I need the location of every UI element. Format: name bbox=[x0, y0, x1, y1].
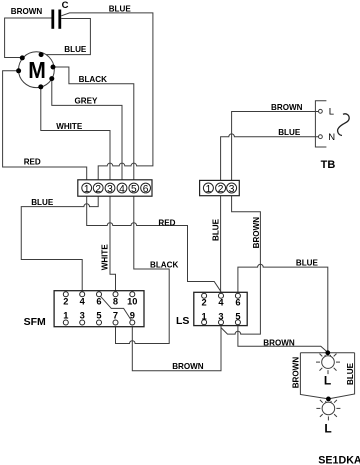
svg-text:3: 3 bbox=[218, 312, 223, 322]
wire blue (capacitor to terminal 2, long right loop) bbox=[61, 13, 153, 183]
wire red (terminal 1 to LS pin 4) bbox=[87, 193, 221, 292]
wire brown (SFM pin 9 to LS pin 3) bbox=[132, 325, 221, 371]
svg-text:BROWN: BROWN bbox=[172, 362, 204, 371]
lamp L2 rays bbox=[316, 400, 340, 421]
LS pin numbers top row bbox=[202, 298, 241, 308]
wire white (motor bottom to terminal 3) bbox=[41, 88, 110, 184]
svg-text:6: 6 bbox=[235, 298, 240, 308]
svg-text:BLUE: BLUE bbox=[212, 218, 221, 241]
motor terminal dot (upper-left, brown) bbox=[20, 55, 25, 60]
wire brown (terminal block 2 pin 3 up to TB L) bbox=[232, 112, 319, 184]
svg-text:4: 4 bbox=[119, 184, 125, 195]
svg-text:1: 1 bbox=[84, 184, 90, 195]
motor terminal dot (top, blue) bbox=[39, 52, 44, 57]
TB flex cable squiggle bbox=[338, 114, 350, 136]
svg-text:N: N bbox=[328, 132, 335, 143]
svg-text:BROWN: BROWN bbox=[11, 7, 43, 16]
lamp L2 collar bbox=[326, 401, 332, 403]
lamp L2 bulb circle bbox=[322, 402, 335, 415]
wire red (motor left to terminal 1) bbox=[3, 71, 87, 183]
svg-text:6: 6 bbox=[96, 296, 101, 306]
SFM switch linkage bbox=[100, 296, 131, 320]
TB terminal L circle bbox=[319, 109, 323, 113]
svg-text:TB: TB bbox=[321, 159, 336, 171]
svg-text:2: 2 bbox=[202, 298, 207, 308]
wire brown (LS pin 3 to terminal block 2 pin 3, up to TB) bbox=[221, 193, 260, 334]
wire white (terminal 3 to SFM pin 8) bbox=[110, 193, 116, 292]
LS pin numbers bottom row bbox=[202, 312, 241, 322]
svg-text:RED: RED bbox=[158, 218, 175, 227]
motor M1 circle bbox=[19, 52, 55, 88]
svg-text:BROWN: BROWN bbox=[263, 339, 295, 348]
motor terminal dot (right, black) bbox=[51, 65, 56, 70]
svg-text:BLUE: BLUE bbox=[278, 128, 301, 137]
svg-text:4: 4 bbox=[80, 296, 86, 306]
terminal strip TS2 circled numbers 1-3 bbox=[203, 183, 236, 193]
svg-text:RED: RED bbox=[24, 158, 41, 167]
svg-text:7: 7 bbox=[113, 311, 118, 321]
wire black (terminal 5 to SFM pin 7) bbox=[116, 193, 170, 344]
LS top pins bbox=[202, 293, 241, 298]
svg-text:BLUE: BLUE bbox=[346, 362, 355, 385]
lamp L2 connection dot bbox=[326, 397, 331, 402]
svg-text:1: 1 bbox=[63, 311, 68, 321]
svg-text:3: 3 bbox=[80, 311, 85, 321]
svg-text:2: 2 bbox=[218, 184, 224, 195]
svg-text:1: 1 bbox=[202, 312, 207, 322]
svg-text:10: 10 bbox=[127, 296, 137, 306]
motor terminal dot (left, red) bbox=[16, 68, 21, 73]
lamp L1 connection dot bbox=[325, 350, 330, 355]
wire brown (LS pin 5 to lamp 1) bbox=[238, 325, 328, 353]
svg-text:SE1DKA: SE1DKA bbox=[318, 455, 360, 465]
svg-text:L: L bbox=[329, 107, 334, 118]
SFM pin numbers top row bbox=[63, 296, 137, 306]
lamp L1 rays bbox=[316, 354, 340, 375]
svg-text:5: 5 bbox=[96, 311, 101, 321]
svg-text:L: L bbox=[324, 421, 331, 435]
TB terminal N circle bbox=[319, 135, 323, 139]
svg-text:5: 5 bbox=[131, 184, 137, 195]
svg-text:BROWN: BROWN bbox=[271, 103, 303, 112]
svg-text:BROWN: BROWN bbox=[291, 357, 300, 389]
svg-text:BLUE: BLUE bbox=[109, 5, 132, 14]
svg-text:2: 2 bbox=[63, 296, 68, 306]
wire blue (terminal 2 to SFM pin 4) bbox=[21, 193, 98, 292]
LS block box bbox=[194, 292, 247, 325]
svg-text:BLUE: BLUE bbox=[64, 45, 87, 54]
svg-text:BLACK: BLACK bbox=[79, 75, 107, 84]
svg-text:WHITE: WHITE bbox=[101, 244, 110, 271]
svg-text:SFM: SFM bbox=[24, 316, 46, 328]
terminal strip TS1 box bbox=[78, 180, 152, 196]
svg-text:8: 8 bbox=[113, 296, 118, 306]
SFM bottom pins bbox=[63, 320, 135, 325]
lamp L1 bulb circle bbox=[322, 356, 335, 369]
svg-text:5: 5 bbox=[235, 312, 240, 322]
wire black (motor right to terminal 5) bbox=[54, 67, 134, 183]
svg-text:BLUE: BLUE bbox=[31, 198, 54, 207]
terminal strip TS2 box bbox=[200, 180, 240, 195]
wire grey (motor lower-right to terminal 4) bbox=[52, 80, 122, 183]
LS bottom pins bbox=[202, 320, 241, 325]
SFM top pins bbox=[63, 292, 135, 297]
lamp fixture outline bbox=[300, 353, 354, 399]
motor terminal dot (lower-right, grey) bbox=[49, 76, 54, 81]
svg-text:LS: LS bbox=[176, 315, 189, 327]
SFM pin numbers bottom row bbox=[63, 311, 135, 321]
wire blue (LS pin 6 to lamp 1) bbox=[238, 264, 328, 351]
lamp L1 collar bbox=[325, 355, 331, 357]
svg-text:BLACK: BLACK bbox=[150, 260, 178, 269]
svg-text:L: L bbox=[324, 374, 331, 388]
svg-text:3: 3 bbox=[229, 184, 235, 195]
terminal strip TS1 circled numbers 1-6 bbox=[82, 183, 151, 193]
svg-text:6: 6 bbox=[143, 184, 149, 195]
svg-text:C: C bbox=[62, 0, 69, 11]
svg-text:4: 4 bbox=[218, 298, 224, 308]
TB bracket bbox=[315, 101, 326, 147]
wire blue (terminal block 2 pin 2 up to TB N) bbox=[221, 134, 319, 183]
svg-text:1: 1 bbox=[206, 184, 212, 195]
svg-text:GREY: GREY bbox=[75, 97, 99, 106]
capacitor C1 plates bbox=[51, 10, 61, 29]
SFM block box bbox=[54, 291, 144, 327]
wire blue (terminal block 2 pin 2 down to LS pin 4) bbox=[220, 193, 222, 292]
wire brown (capacitor to motor upper-left) bbox=[5, 18, 52, 58]
svg-text:BLUE: BLUE bbox=[296, 258, 319, 267]
wire blue (capacitor to motor top) bbox=[42, 19, 90, 55]
svg-text:BROWN: BROWN bbox=[252, 217, 261, 249]
svg-text:M: M bbox=[28, 57, 46, 83]
svg-text:2: 2 bbox=[95, 184, 101, 195]
svg-text:WHITE: WHITE bbox=[56, 122, 83, 131]
motor terminal dot (bottom, white) bbox=[38, 84, 43, 89]
svg-text:3: 3 bbox=[107, 184, 113, 195]
